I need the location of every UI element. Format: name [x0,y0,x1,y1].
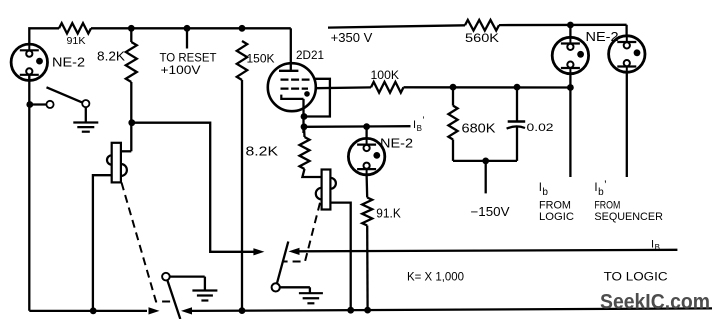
wire lamp4 bottom lead [626,72,628,177]
svg-text:LOGIC: LOGIC [539,211,574,223]
wire bottom rail left segment [29,310,147,312]
thyratron anode plate [279,70,298,72]
svg-text:NE-2: NE-2 [586,29,619,44]
resistor 91K [59,23,91,33]
relay coil K1 left loop [107,155,112,164]
wire 8.2K top lead [130,28,132,42]
wire bottom rail right segment [192,308,712,311]
wire 680K top lead [452,87,454,106]
svg-text:680K: 680K [462,121,496,136]
wire top rail corner to tube anode [290,28,292,70]
node grid wire / 0.02 [514,84,521,91]
relay coil K2 left loop [316,188,322,200]
relay coil K1 right loop [121,164,127,176]
wire ground stub (switch S2) [204,277,206,291]
svg-text:+100V: +100V [161,63,201,77]
wire 91.K to bottom rail [366,226,369,311]
wire 8.2K lower to relay2 [302,169,321,177]
wire ground stub (switch S3) [309,287,311,293]
node cathode / shield return [301,113,308,120]
node top rail / reset stub [184,25,191,32]
svg-text:150K: 150K [247,51,275,65]
svg-text:FROM: FROM [594,199,620,211]
node relay1 lead / bottom rail [90,307,97,314]
switch S3 pivot [272,283,280,291]
wire lamp1 bottom lead [28,75,30,311]
svg-text:+350 V: +350 V [331,30,373,45]
switch S2 pivot [162,273,170,281]
arrow IB line [289,248,300,255]
switch S1 arm (open) [47,87,82,102]
wire 560K to lamps [499,24,627,27]
svg-text:8.2K: 8.2K [97,49,125,64]
resistor 8.2K lower [300,137,310,169]
svg-text:8.2K: 8.2K [246,144,279,159]
neon lamp NE-2 (upper left) [11,44,47,80]
wire -150V stub [485,161,487,194]
resistor 91.K [362,198,372,226]
wire S1 contact to ground [85,107,87,122]
capacitor 0.02 plates [508,120,526,122]
wire switch tap [29,103,46,105]
node bottom rail / 91.K line [364,307,371,314]
svg-text:2D21: 2D21 [296,50,324,62]
node +350V / lamp3 [567,22,574,29]
wire 680K bottom lead [452,140,454,161]
node grid wire / lamp3 lead [567,84,574,91]
wire 8.2K lower top lead [303,127,306,137]
wire lamp1 top to top rail [29,28,59,44]
wire to sequencer switch [132,123,254,252]
switch S1 left contact [46,101,53,108]
svg-text:SEQUENCER: SEQUENCER [594,211,663,223]
arrow bottom rail left [149,307,160,314]
switch S2 arm [167,280,180,319]
relay coil K2 core [322,170,331,210]
relay K1 linkage (dashed) [122,183,175,302]
node grid wire / 680K [450,84,457,91]
svg-text:100K: 100K [371,70,400,82]
switch S1 right contact [82,100,89,107]
node 8.2K / relay1 / cross wire [128,119,135,126]
ground (manual switch) [73,121,98,123]
arrow into switch 2 [253,248,264,255]
wire S2 pivot to ground [170,275,205,277]
svg-text:SeekIC.com: SeekIC.com [600,291,710,314]
resistor 560K [465,20,499,31]
svg-text:TO LOGIC: TO LOGIC [604,271,668,283]
neon lamp NE-2 (top right B) [609,36,645,72]
wire control grid to 100K [316,86,371,89]
wire +350V rail [328,25,465,27]
relay K2 linkage (dashed) [283,203,320,262]
wire cathode output [304,125,411,128]
node lamp2 top [363,123,370,130]
ground (switch S3) [299,292,323,294]
wire lamp4 top lead [625,25,627,36]
neon lamp NE-2 (top right A) [552,37,588,73]
wire lamp2 top lead [365,127,367,139]
node top rail / 8.2K [128,25,135,32]
wire shield grid return loop [304,79,330,117]
node RC bottom / -150V stub [482,158,489,165]
ground (switch S2) [192,289,217,291]
node cathode / output wire [301,123,308,130]
svg-text:FROM: FROM [539,199,571,211]
wire lamp3 top lead [569,25,571,37]
capacitor 0.02 top lead [516,87,518,121]
svg-text:K= X 1,000: K= X 1,000 [407,271,464,283]
resistor 8.2K upper left [126,42,137,82]
svg-text:91K: 91K [67,35,86,47]
wire relay1 bottom lead [93,175,112,311]
relay coil K2 right loop [330,178,336,189]
thyratron V1 2D21 envelope [268,63,316,111]
resistor 680K [448,106,457,140]
node bottom rail / 150K line [239,307,246,314]
node top rail / 150K [239,25,246,32]
relay coil K1 core [112,143,121,183]
wire relay1 top lead [121,150,131,152]
thyratron cathode [281,95,303,99]
svg-text:−150V: −150V [471,205,511,219]
svg-text:560K: 560K [465,33,499,45]
wire S3 pivot to ground [280,286,310,288]
svg-text:91.K: 91.K [376,206,401,221]
node lamp1 lead / switch tap [26,101,33,108]
thyratron shield grid (dashed) [281,78,310,80]
wire reset stub [186,28,188,48]
capacitor 0.02 bottom lead [516,127,518,161]
wire 8.2K bottom lead [130,82,132,151]
wire RC bottom [453,160,517,162]
arrow bottom rail right [181,307,192,314]
svg-text:0.02: 0.02 [527,122,554,134]
wire 150K down to bottom rail [241,80,243,311]
wire IB line [300,250,678,252]
wire top rail 91K to tube corner [91,27,291,29]
wire cathode lead [302,99,304,133]
wire 100K to lamp3 lead [404,86,571,88]
thyratron gas dot [304,91,310,97]
svg-text:NE-2: NE-2 [52,55,85,69]
node bottom rail / relay2 line [347,307,354,314]
resistor 100K [371,82,404,93]
switch S3 arm [277,242,288,284]
svg-text:NE-2: NE-2 [380,136,413,151]
wire lamp2 bottom lead [365,175,368,198]
neon lamp NE-2 (middle) [348,138,384,174]
resistor 150K [237,41,247,80]
thyratron control grid (dashed) [281,87,309,89]
wire lamp3 bottom lead [569,74,571,177]
wire relay2 bottom lead [330,203,350,311]
